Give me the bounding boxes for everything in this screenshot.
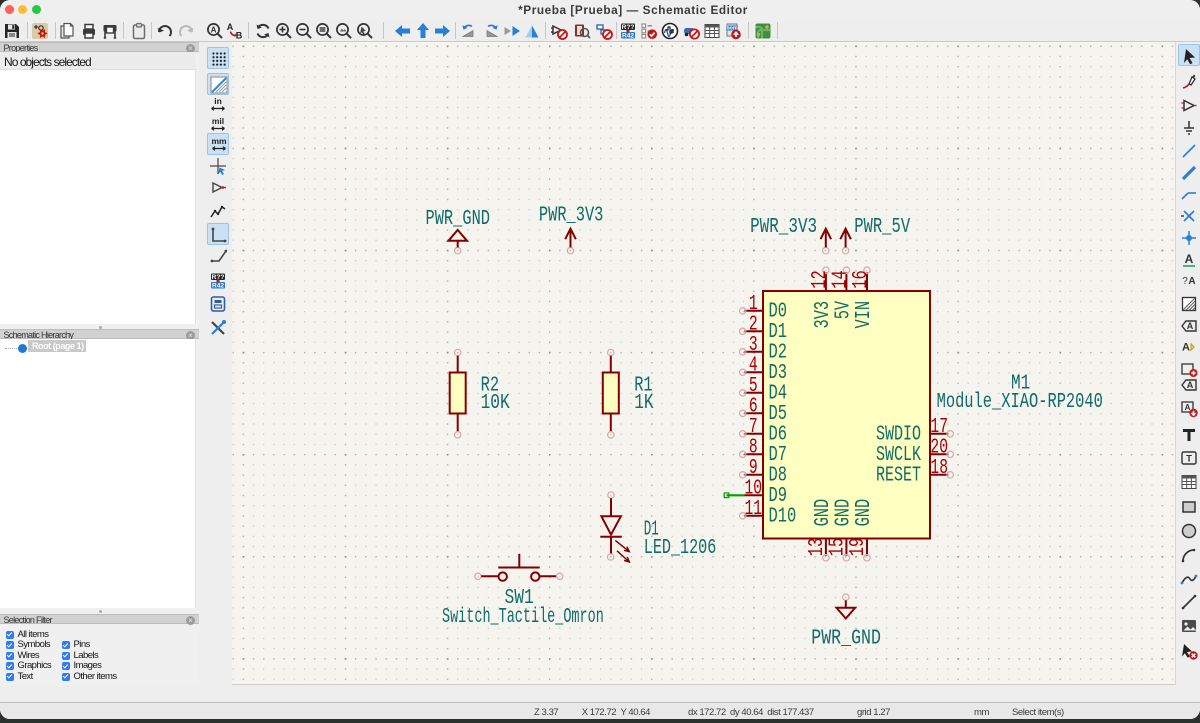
svg-text:LED_1206: LED_1206	[644, 537, 717, 560]
svg-text:18: 18	[930, 457, 948, 480]
svg-text:14: 14	[830, 270, 853, 288]
svg-text:T: T	[1186, 454, 1192, 465]
svg-text:mil: mil	[212, 116, 224, 126]
svg-text:R42: R42	[622, 32, 634, 39]
svg-text:R42: R42	[212, 282, 224, 289]
svg-text:in: in	[214, 96, 222, 106]
svg-text:PWR_GND: PWR_GND	[811, 627, 881, 650]
svg-text:PWR_5V: PWR_5V	[854, 216, 910, 239]
svg-text:Switch_Tactile_Omron: Switch_Tactile_Omron	[442, 606, 604, 629]
svg-text:mm: mm	[211, 136, 227, 146]
svg-text:A: A	[1186, 321, 1193, 331]
svg-text:16: 16	[850, 270, 873, 288]
svg-text:A: A	[227, 22, 234, 32]
svg-text:D10: D10	[769, 506, 797, 529]
svg-text:VIN: VIN	[853, 301, 876, 329]
svg-text:A: A	[1184, 403, 1190, 412]
svg-text:19: 19	[847, 538, 870, 556]
svg-text:15: 15	[827, 538, 850, 556]
svg-text:PWR_3V3: PWR_3V3	[539, 204, 604, 227]
svg-text:11: 11	[745, 498, 763, 521]
svg-text:GND: GND	[853, 499, 876, 527]
svg-text:?: ?	[1182, 276, 1188, 287]
svg-text:Module_XIAO-RP2040: Module_XIAO-RP2040	[937, 391, 1103, 414]
svg-text:10K: 10K	[481, 392, 510, 415]
svg-text:PWR_GND: PWR_GND	[426, 208, 491, 231]
svg-text:RESET: RESET	[876, 465, 921, 488]
svg-text:A: A	[1184, 252, 1193, 266]
svg-text:1K: 1K	[634, 392, 654, 415]
svg-text:A: A	[210, 25, 216, 34]
svg-text:5V: 5V	[833, 301, 856, 320]
svg-text:GND: GND	[833, 499, 856, 527]
svg-text:PWR_3V3: PWR_3V3	[750, 216, 817, 239]
svg-text:A: A	[1186, 380, 1193, 390]
svg-text:A: A	[1182, 342, 1190, 354]
svg-text:A: A	[1188, 276, 1195, 287]
